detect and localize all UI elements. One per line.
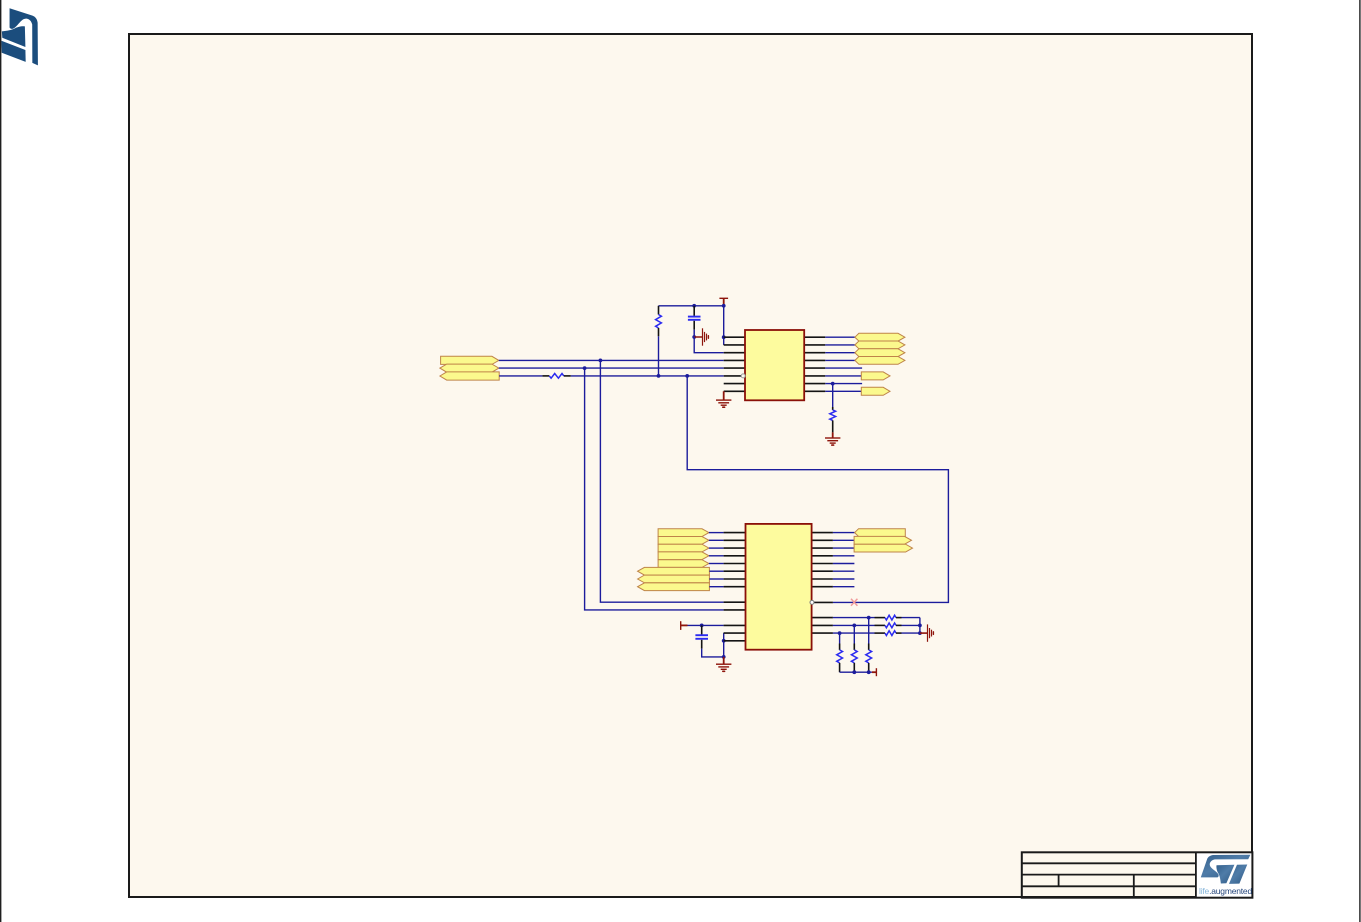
wire R1 bottom to net3 bbox=[657, 336, 661, 378]
op-amp U1 pin stubs right bbox=[804, 337, 825, 391]
port P7 bbox=[855, 357, 905, 365]
wire U1 pin 11 bbox=[825, 375, 861, 377]
wire port P12 to U2 bbox=[709, 547, 724, 549]
power symbol VCC3 bbox=[872, 668, 877, 676]
wire U1 pin 12 dangling bbox=[825, 367, 862, 369]
port P18 bbox=[855, 529, 906, 537]
wire net2 drop to U2 bbox=[585, 368, 724, 610]
wire C2 bottom to ground node bbox=[702, 649, 726, 659]
wire R5 to rail bbox=[902, 624, 922, 628]
microcontroller U2 pin stubs left bbox=[724, 533, 746, 641]
wire port P16 to U2 bbox=[709, 578, 723, 580]
wire drop to R8 bbox=[853, 625, 855, 643]
ground GND3 bbox=[716, 657, 731, 671]
logo ST (title block) bbox=[1201, 855, 1251, 884]
wire U2 to R6 bbox=[833, 631, 875, 635]
port P16 bbox=[638, 575, 710, 583]
power symbol VCC1 bbox=[719, 298, 728, 306]
capacitor C2 bbox=[695, 625, 708, 648]
logo ST (page corner, rotated) bbox=[1, 8, 38, 65]
port P20 bbox=[854, 544, 912, 552]
ground GND1 bbox=[716, 391, 731, 407]
port P10 bbox=[658, 529, 709, 537]
wire VCC2 to U2 bbox=[688, 624, 724, 628]
wire port P14 to U2 bbox=[709, 563, 724, 565]
wire net3 loop to U2 right bbox=[687, 376, 948, 603]
port P4 bbox=[855, 333, 905, 341]
wire U2 right port nets bbox=[833, 533, 855, 549]
op-amp U1 body bbox=[745, 330, 804, 400]
port P11 bbox=[658, 537, 709, 545]
ground AGND2 (rotated) bbox=[920, 624, 934, 641]
port P15 bbox=[638, 567, 710, 575]
capacitor C1 bbox=[688, 306, 701, 337]
port P5 bbox=[855, 341, 905, 349]
wire U2 ground pins tie bbox=[722, 633, 726, 657]
sheet frame bbox=[129, 34, 1252, 897]
no-connect X marker bbox=[851, 599, 857, 606]
wire net3 bbox=[499, 374, 724, 378]
wire drop to R7 bbox=[868, 618, 870, 644]
title block bbox=[1022, 852, 1253, 897]
svg-text:life.augmented: life.augmented bbox=[1199, 886, 1252, 896]
microcontroller U2 pin stubs right bbox=[812, 533, 833, 634]
wire port P15 to U2 bbox=[709, 570, 723, 572]
port P19 bbox=[854, 536, 911, 544]
wire port P10 to U2 bbox=[709, 532, 724, 534]
wire net1 bbox=[499, 359, 724, 363]
port P9 bbox=[861, 387, 890, 395]
node C1 bottom bbox=[692, 335, 696, 339]
resistor R1 bbox=[656, 306, 662, 337]
wire U2 to R5 bbox=[833, 624, 875, 628]
ground AGND1 (rotated) bbox=[694, 328, 708, 345]
resistor R5 bbox=[875, 623, 902, 628]
port P6 bbox=[855, 349, 905, 357]
wire net2 bbox=[499, 366, 724, 370]
port P14 bbox=[658, 560, 709, 568]
wire U1 pin 9 bbox=[825, 390, 861, 392]
resistor R6 bbox=[875, 631, 902, 636]
resistor R2 bbox=[542, 374, 570, 379]
wire C1 node to U1 pin 3 bbox=[694, 337, 724, 353]
wire right vertical rail bbox=[918, 618, 922, 635]
wire U2 to R4 bbox=[833, 616, 875, 620]
wire U1 pin 10 bbox=[825, 382, 862, 386]
port P3 bbox=[440, 372, 499, 380]
U1 pin 6 bubble bbox=[741, 374, 745, 378]
microcontroller U2 body bbox=[746, 524, 812, 650]
port P1 bbox=[441, 356, 499, 364]
wire port P13 to U2 bbox=[709, 555, 724, 557]
resistor R3 bbox=[830, 384, 836, 433]
port P17 bbox=[638, 583, 710, 591]
port P13 bbox=[658, 552, 709, 560]
port P12 bbox=[658, 544, 709, 552]
wire R4 to rail bbox=[902, 617, 920, 619]
wire drop to R9 bbox=[839, 633, 841, 643]
resistor R7 bbox=[866, 644, 872, 673]
wire port P17 to U2 bbox=[709, 586, 723, 588]
power symbol VCC2 bbox=[681, 621, 688, 630]
wire net1 drop to U2 bbox=[600, 360, 723, 602]
op-amp U1 pin stubs left bbox=[724, 337, 745, 391]
U2 pin bubble bbox=[810, 600, 814, 604]
resistor R9 bbox=[837, 644, 843, 673]
wire bottom rail bbox=[840, 670, 872, 674]
page left edge bbox=[0, 0, 2, 922]
wires U2 right dangling bbox=[833, 556, 855, 587]
wire top rail node VDD bbox=[659, 304, 726, 308]
resistor R8 bbox=[851, 644, 857, 673]
wire R6 to rail bbox=[902, 632, 920, 634]
wire U1 right nets to ports bbox=[825, 337, 855, 360]
port P8 bbox=[861, 372, 890, 380]
wire port P11 to U2 bbox=[709, 539, 724, 541]
ground GND2 bbox=[825, 432, 840, 445]
wire VDD drop to U1 pins 1-2 bbox=[722, 306, 726, 345]
page right edge bbox=[1359, 0, 1361, 922]
resistor R4 bbox=[875, 615, 902, 620]
port P2 bbox=[440, 364, 499, 372]
logo text life.augmented bbox=[1199, 886, 1252, 896]
